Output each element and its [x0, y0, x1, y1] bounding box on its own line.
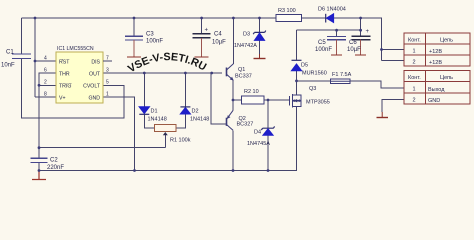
svg-text:Q1: Q1 — [238, 67, 245, 73]
wire 555 GND pin down — [103, 97, 135, 171]
wire R2 to gate — [264, 99, 289, 101]
capacitor C1 — [12, 54, 31, 59]
svg-text:10nF: 10nF — [1, 63, 15, 69]
wire rail R3 to D6 — [302, 17, 326, 19]
svg-text:D4: D4 — [254, 130, 261, 136]
wire connector J1 pin1 — [382, 49, 405, 51]
resistor R2 10 — [242, 96, 265, 104]
ground below C4 — [195, 56, 209, 58]
svg-text:C1: C1 — [6, 50, 14, 56]
svg-text:100nF: 100nF — [146, 38, 163, 44]
svg-text:Цепь: Цепь — [440, 75, 453, 81]
diode D1 1N4148 — [139, 107, 167, 123]
svg-text:R3 100: R3 100 — [278, 8, 296, 14]
wire 555 OUT to bases — [103, 72, 222, 74]
transistor Q1 BC337 npn — [227, 64, 234, 81]
svg-text:5: 5 — [106, 80, 109, 86]
svg-text:TRIG: TRIG — [59, 84, 71, 90]
wire R1 wiper stem — [164, 135, 166, 148]
svg-text:220nF: 220nF — [47, 165, 64, 171]
svg-text:8: 8 — [44, 92, 47, 98]
wire rail D6 to corner and down to connector — [334, 18, 382, 61]
svg-text:DIS: DIS — [91, 60, 100, 66]
svg-text:R2 10: R2 10 — [244, 89, 259, 95]
svg-text:D6 1N4004: D6 1N4004 — [318, 7, 346, 13]
svg-text:+12В: +12В — [429, 60, 442, 66]
fuse F1 3.5A — [331, 72, 352, 84]
capacitor C4 polarized — [193, 34, 211, 38]
wire base vertical Q1 Q2 — [211, 73, 226, 124]
svg-text:C5: C5 — [318, 40, 326, 46]
ground below J2 GND row — [377, 112, 389, 118]
diode D2 1N4148 — [180, 107, 209, 122]
svg-text:RST: RST — [59, 60, 70, 66]
svg-text:1: 1 — [106, 92, 109, 98]
ground below C5 — [331, 54, 342, 56]
wire gnd rail bottom — [39, 106, 297, 170]
wire fuse node left to F1 — [297, 80, 331, 82]
zener diode D4 1N4745A — [247, 126, 275, 147]
svg-text:MUR1560: MUR1560 — [302, 71, 327, 77]
wire D2 branch — [176, 73, 186, 128]
svg-text:F1 7.5A: F1 7.5A — [332, 72, 352, 78]
svg-text:BC327: BC327 — [237, 122, 254, 128]
wire C2 column — [38, 148, 40, 171]
capacitor C6 polarized — [352, 36, 371, 39]
svg-text:C6: C6 — [349, 40, 357, 46]
svg-text:CVOLT: CVOLT — [83, 84, 101, 90]
wire C3 from rail — [133, 18, 135, 36]
wire emitters to R2 — [233, 80, 242, 110]
ground below C6 — [355, 54, 366, 56]
wire C1 top from rail — [21, 18, 23, 54]
svg-text:100nF: 100nF — [315, 47, 332, 53]
wire GND row of J2 — [382, 99, 404, 112]
svg-text:+12В: +12В — [429, 49, 442, 55]
potentiometer R1 100k — [154, 124, 190, 143]
connector J1 +12V table — [404, 33, 470, 66]
wire Q1 collector up — [232, 18, 234, 64]
resistor R3 100 — [276, 15, 302, 22]
wire D5 top line to C5 C6 — [297, 29, 361, 31]
svg-text:1N4742A: 1N4742A — [234, 43, 257, 49]
svg-text:R1 100k: R1 100k — [170, 138, 191, 144]
ground below C3 — [127, 56, 141, 58]
wire C5 column — [336, 30, 338, 36]
svg-text:6: 6 — [44, 68, 47, 74]
svg-text:THR: THR — [59, 72, 70, 78]
capacitor C5 — [327, 36, 346, 39]
wire Q2 collector down — [232, 130, 234, 170]
svg-text:1N4148: 1N4148 — [190, 116, 209, 122]
wire C4 from rail — [201, 18, 203, 34]
svg-text:+: + — [205, 28, 209, 34]
svg-text:GND: GND — [88, 96, 100, 102]
diode D6 1N4004 — [318, 7, 346, 23]
svg-text:C2: C2 — [50, 158, 58, 164]
IC U1 LMC555CN body — [56, 52, 103, 103]
svg-text:Выход: Выход — [428, 87, 445, 93]
svg-text:Цепь: Цепь — [440, 38, 453, 44]
transistor Q2 BC327 pnp — [227, 110, 234, 130]
svg-text:GND: GND — [428, 98, 440, 104]
svg-text:IC1 LMC555CN: IC1 LMC555CN — [57, 46, 94, 52]
svg-text:1N4148: 1N4148 — [148, 116, 167, 122]
mosfet Q3 MTP3055 — [290, 94, 302, 107]
svg-text:10µF: 10µF — [347, 47, 361, 53]
svg-text:1N4745A: 1N4745A — [247, 141, 270, 147]
wire D4 branch — [267, 100, 269, 171]
svg-text:V+: V+ — [59, 96, 66, 102]
svg-text:D5: D5 — [301, 63, 308, 69]
svg-text:2: 2 — [413, 98, 416, 104]
capacitor C2 — [31, 158, 48, 162]
svg-text:+: + — [366, 29, 370, 35]
svg-text:BC337: BC337 — [235, 74, 252, 80]
wire connector J1 pin2 — [382, 60, 405, 62]
wire THR TRIG down to timing node — [39, 73, 56, 148]
wire D3 branch — [259, 18, 261, 54]
zener diode D3 1N4742A — [234, 31, 266, 49]
svg-text:Q3: Q3 — [309, 86, 316, 92]
svg-text:1: 1 — [413, 49, 416, 55]
wire timing node to R1 wiper — [39, 147, 165, 149]
svg-text:10µF: 10µF — [212, 40, 226, 46]
ground below C2 — [32, 171, 46, 180]
wire C6 column — [360, 18, 362, 36]
connector J2 output table — [404, 71, 470, 105]
wire top rail — [22, 17, 277, 19]
svg-text:1: 1 — [413, 87, 416, 93]
svg-text:4: 4 — [44, 56, 47, 62]
svg-text:3: 3 — [106, 68, 109, 74]
wire D1 branch — [144, 73, 154, 128]
wire C1 bottom to CVOLT — [22, 59, 125, 118]
svg-text:C4: C4 — [214, 32, 222, 38]
svg-text:Конт.: Конт. — [408, 38, 421, 44]
svg-text:C3: C3 — [146, 32, 154, 38]
svg-text:D3: D3 — [243, 32, 250, 38]
wire F1 to output connector — [350, 81, 404, 88]
svg-text:D2: D2 — [192, 109, 199, 115]
wire drain up to fuse node — [296, 81, 298, 95]
svg-text:2: 2 — [44, 80, 47, 86]
wire rail to RST and V+ — [35, 18, 56, 97]
svg-text:D1: D1 — [151, 109, 158, 115]
diode D5 MUR1560 — [291, 60, 326, 76]
ground below D3 — [254, 54, 266, 59]
wire D5 column — [296, 30, 298, 81]
svg-text:MTP3055: MTP3055 — [306, 100, 330, 106]
svg-text:OUT: OUT — [89, 72, 101, 78]
capacitor C3 — [125, 36, 143, 40]
svg-text:2: 2 — [413, 60, 416, 66]
svg-text:Конт.: Конт. — [408, 75, 421, 81]
